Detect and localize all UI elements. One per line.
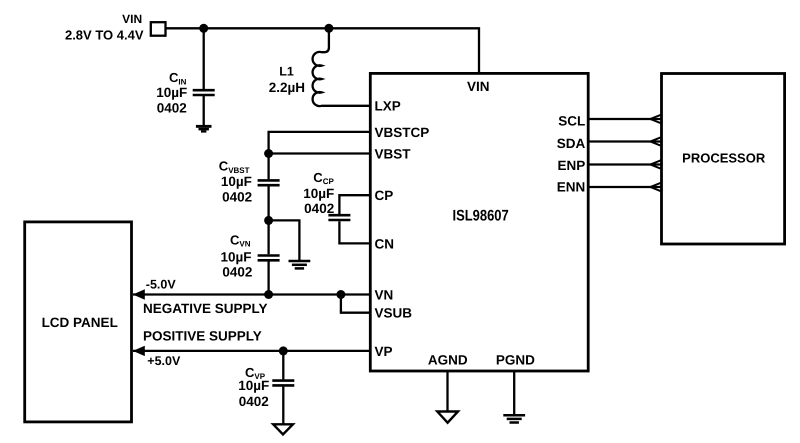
svg-text:NEGATIVE SUPPLY: NEGATIVE SUPPLY xyxy=(143,301,268,316)
svg-text:PGND: PGND xyxy=(496,353,535,368)
svg-text:-5.0V: -5.0V xyxy=(146,277,177,291)
svg-text:L1: L1 xyxy=(279,65,294,79)
svg-text:0402: 0402 xyxy=(222,190,252,205)
svg-text:AGND: AGND xyxy=(428,353,468,368)
svg-text:0402: 0402 xyxy=(157,101,187,116)
svg-text:10µF: 10µF xyxy=(238,378,269,393)
svg-text:+5.0V: +5.0V xyxy=(147,354,181,368)
svg-text:CCP: CCP xyxy=(313,170,334,186)
svg-text:CVN: CVN xyxy=(230,233,251,249)
svg-text:LXP: LXP xyxy=(375,99,401,114)
svg-text:VIN: VIN xyxy=(122,12,142,26)
svg-text:VIN: VIN xyxy=(467,79,490,94)
svg-text:0402: 0402 xyxy=(304,201,334,216)
svg-text:VBSTCP: VBSTCP xyxy=(375,125,430,140)
svg-text:2.2µH: 2.2µH xyxy=(269,80,305,95)
svg-text:10µF: 10µF xyxy=(156,85,187,100)
svg-text:0402: 0402 xyxy=(239,394,269,409)
svg-text:SCL: SCL xyxy=(558,113,585,128)
svg-text:SDA: SDA xyxy=(557,136,586,151)
svg-text:0402: 0402 xyxy=(222,265,252,280)
svg-text:ISL98607: ISL98607 xyxy=(453,207,509,224)
svg-text:POSITIVE SUPPLY: POSITIVE SUPPLY xyxy=(143,329,262,344)
svg-text:10µF: 10µF xyxy=(220,250,251,265)
svg-text:10µF: 10µF xyxy=(221,174,252,189)
svg-text:ENN: ENN xyxy=(557,179,586,194)
svg-text:ENP: ENP xyxy=(558,158,586,173)
svg-text:2.8V TO 4.4V: 2.8V TO 4.4V xyxy=(65,28,144,43)
svg-text:CP: CP xyxy=(375,188,394,203)
svg-text:LCD PANEL: LCD PANEL xyxy=(42,315,118,330)
svg-text:10µF: 10µF xyxy=(303,186,334,201)
svg-text:VSUB: VSUB xyxy=(375,306,413,321)
svg-text:VN: VN xyxy=(375,287,394,302)
svg-text:CVBST: CVBST xyxy=(219,159,250,175)
svg-text:PROCESSOR: PROCESSOR xyxy=(682,150,766,165)
svg-text:VBST: VBST xyxy=(375,146,412,161)
svg-text:VP: VP xyxy=(375,344,393,359)
svg-text:CN: CN xyxy=(375,236,395,251)
